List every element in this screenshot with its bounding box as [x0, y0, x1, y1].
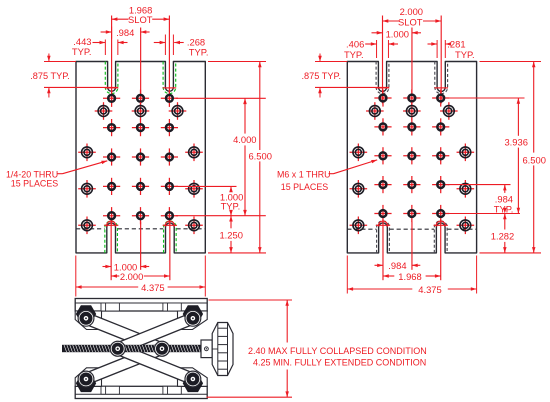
plate R tapped hole r2c1: [374, 118, 391, 135]
plate L counterbored hole side x2y1: [185, 144, 203, 162]
plate L tapped hole r3c1: [103, 148, 120, 165]
svg-text:6.500: 6.500: [248, 150, 271, 161]
leader 1/4-20: [58, 161, 108, 174]
plate L top slot 1 end tick: [105, 87, 119, 89]
svg-text:2.40 MAX FULLY COLLAPSED CONDI: 2.40 MAX FULLY COLLAPSED CONDITION: [248, 346, 427, 356]
plate L outline: [76, 62, 205, 253]
svg-text:SLOT: SLOT: [128, 14, 153, 25]
plate L counterbored hole side x1y3: [78, 217, 96, 235]
plate L counterbored hole top 1: [95, 102, 113, 120]
plate L tapped hole r5c2: [132, 207, 149, 224]
jack bolt top-right: [183, 305, 203, 326]
dim top 1.000 line: [372, 27, 422, 39]
dim 6.500 left lines: [208, 62, 266, 253]
plate R tapped hole r5c3: [432, 205, 449, 222]
plate L counterbored hole side x1y2: [78, 180, 96, 198]
svg-text:.984: .984: [116, 27, 134, 38]
jack top plate flange line: [75, 302, 207, 304]
jack corner block top-left: [75, 311, 101, 330]
svg-text:15 PLACES: 15 PLACES: [11, 179, 58, 189]
dim 1.250 line: [229, 216, 233, 253]
svg-text:15 PLACES: 15 PLACES: [281, 182, 328, 192]
jack bolt bottom-left: [76, 371, 96, 392]
dim .281 arrows: [428, 40, 452, 58]
plate L tapped hole r2c1: [103, 119, 120, 136]
svg-text:2.000: 2.000: [120, 271, 143, 282]
plate L bottom slot 2 counterbore dashed outline: [164, 221, 177, 253]
dim bottom 1.968 line: [383, 274, 441, 278]
plate L tapped hole r4c3: [161, 178, 178, 195]
plate R counterbored hole top 2: [403, 102, 421, 120]
plate R tapped hole r2c3: [432, 118, 449, 135]
dim .875 TYP left lines: [44, 54, 118, 98]
plate R counterbored hole side x2y2: [457, 180, 475, 198]
jack corner block bottom-right: [178, 368, 208, 387]
dim 2.000 SLOT line: [383, 19, 442, 23]
dim .406 arrows: [365, 40, 398, 58]
plate L tapped hole r1c2: [132, 90, 149, 107]
svg-text:.875 TYP.: .875 TYP.: [302, 71, 342, 81]
plate R tapped hole r3c1: [374, 147, 391, 164]
plate R counterbored hole side x2y1: [457, 144, 475, 162]
svg-text:.984: .984: [388, 260, 406, 271]
dim .984 TYP lines: [448, 185, 511, 215]
plate L tapped hole r3c2: [132, 148, 149, 165]
dim 1.282 line: [448, 214, 520, 253]
svg-text:4.375: 4.375: [141, 282, 164, 293]
jack bolt middle-right: [155, 341, 170, 356]
dim 6.500 right lines: [480, 62, 542, 253]
plate R counterbored hole top 1: [366, 102, 384, 120]
plate R bottom slot 2 thread arc marker: [434, 221, 448, 227]
dim bottom 4.375 right line: [347, 287, 476, 291]
plate L hidden line bottom counterbore depth: [76, 228, 205, 230]
dim bottom 4.375 left line: [76, 285, 206, 289]
plate L counterbored hole side x2y2: [185, 180, 203, 198]
jack bottom plate tab 1: [101, 386, 119, 394]
plate L top slot 1 counterbore dashed outline: [105, 62, 118, 94]
plate L tapped hole r5c3: [161, 207, 178, 224]
plate R tapped hole r1c2: [403, 89, 420, 106]
plate L tapped hole r1c3: [161, 90, 178, 107]
svg-text:.875 TYP.: .875 TYP.: [30, 71, 70, 81]
svg-text:M6 x 1 THRU: M6 x 1 THRU: [277, 169, 331, 179]
svg-text:4.000: 4.000: [233, 134, 256, 145]
svg-text:4.375: 4.375: [418, 284, 441, 295]
plate R top slot 2 counterbore dashed outline: [435, 62, 448, 94]
svg-text:TYP.: TYP.: [494, 203, 514, 214]
plate L bottom slot 1 counterbore dashed outline: [105, 221, 118, 253]
plate L tapped hole r2c3: [161, 119, 178, 136]
plate L tapped hole r1c1: [103, 90, 120, 107]
ext line plate R right edge: [476, 256, 478, 294]
jack screw shaft block: [201, 340, 212, 358]
dim bottom 1.000 arrows: [103, 265, 150, 268]
jack bolt top-left: [76, 305, 96, 326]
plate L counterbored hole side x1y1: [78, 144, 96, 162]
dim 1.968 SLOT line: [112, 17, 170, 21]
plate R top slot 1 centerline: [382, 16, 384, 104]
ext line plate L left edge: [75, 256, 77, 297]
plate L counterbored hole top 3: [169, 102, 187, 120]
dim .984 line: [101, 27, 150, 39]
plate L tapped hole r4c2: [132, 178, 149, 195]
plate L tapped hole r4c1: [103, 178, 120, 195]
plate L top slot 2 counterbore dashed outline: [163, 62, 176, 94]
jack bottom plate flange line: [75, 393, 207, 395]
plate L bottom slot 1 thread arc marker: [104, 221, 118, 227]
dim bottom 2.000 line: [111, 274, 170, 278]
jack top plate: [75, 299, 207, 312]
jack top plate tab 2: [163, 303, 181, 311]
dim jack height lines: [207, 300, 293, 397]
plate R bottom slot 2 counterbore dashed outline: [434, 221, 447, 253]
svg-text:TYP.: TYP.: [221, 201, 241, 212]
plate R counterbored hole side x1y3: [350, 217, 368, 235]
svg-text:6.500: 6.500: [522, 154, 545, 165]
ext line plate R left edge: [346, 256, 348, 294]
plate R bottom slot 1 thread arc marker: [376, 221, 390, 227]
svg-text:TYP.: TYP.: [72, 46, 92, 57]
svg-text:SLOT: SLOT: [398, 16, 423, 27]
dim .875 TYP right lines: [315, 54, 389, 98]
plate L top slot 2 end tick: [163, 87, 177, 89]
svg-text:1.968: 1.968: [398, 271, 421, 282]
jack arm TR-ML: [116, 313, 195, 354]
plate R tapped hole r3c2: [403, 147, 420, 164]
plate L bottom slot 2 centerline: [169, 220, 171, 281]
leader M6: [329, 160, 378, 174]
jack knob: [212, 323, 233, 376]
svg-text:1.250: 1.250: [219, 230, 242, 241]
jack lead screw: [62, 345, 201, 352]
jack arm BL-MR: [84, 343, 164, 384]
plate R top slot 1 counterbore dashed outline: [376, 62, 389, 94]
plate R bottom slot 1 counterbore dashed outline: [377, 221, 390, 253]
plate R counterbored hole side x1y1: [350, 144, 368, 162]
svg-text:TYP.: TYP.: [189, 46, 209, 57]
plate R outline: [347, 62, 476, 253]
plate L tapped hole r5c1: [103, 207, 120, 224]
plate R tapped hole r5c2: [403, 205, 420, 222]
plate R counterbored hole top 3: [440, 102, 458, 120]
plate L bottom slot 2 thread arc marker: [163, 221, 177, 227]
dim 1.000 TYP lines: [176, 186, 237, 215]
plate R tapped hole r2c2: [403, 118, 420, 135]
dim bottom .984 arrows: [375, 264, 421, 268]
plate L center column centerline bottom: [140, 222, 142, 270]
dim .268 arrows: [154, 35, 184, 56]
jack top plate tab 1: [101, 303, 119, 311]
plate R tapped hole r1c3: [432, 89, 449, 106]
svg-text:1.000: 1.000: [386, 28, 409, 39]
svg-text:4.25 MIN. FULLY EXTENDED CONDI: 4.25 MIN. FULLY EXTENDED CONDITION: [253, 358, 426, 368]
plate L bottom slot 1 centerline: [110, 220, 112, 281]
dim 4.000 lines: [176, 98, 266, 215]
jack arm BR-ML: [116, 343, 195, 384]
plate L tapped hole r3c3: [161, 148, 178, 165]
plate R hidden line bottom counterbore depth: [347, 228, 476, 230]
plate R tapped hole r5c1: [374, 205, 391, 222]
plate R top slot 2 end tick: [434, 87, 448, 89]
jack bolt bottom-right: [183, 371, 203, 392]
dim .443 arrows: [93, 40, 128, 56]
plate R tapped hole r4c2: [403, 176, 420, 193]
jack arm TL-MR: [84, 313, 164, 354]
plate R center column centerline bottom: [411, 222, 413, 270]
jack bottom plate tab 2: [163, 386, 181, 394]
plate R tapped hole r4c1: [374, 176, 391, 193]
plate R tapped hole r3c3: [432, 147, 449, 164]
dim 3.936 lines: [448, 98, 525, 214]
plate R top slot 2 centerline: [440, 16, 442, 104]
plate R bottom slot 2 centerline: [440, 220, 442, 281]
svg-text:TYP.: TYP.: [455, 49, 475, 60]
svg-text:3.936: 3.936: [504, 136, 527, 147]
jack corner block top-right: [178, 311, 208, 330]
svg-text:2.000: 2.000: [400, 6, 423, 17]
plate L top slot 2 centerline: [168, 16, 170, 104]
svg-text:1.282: 1.282: [491, 231, 514, 242]
plate R tapped hole r4c3: [432, 176, 449, 193]
jack corner block bottom-left: [75, 368, 101, 387]
plate L center column centerline top: [140, 28, 142, 104]
jack bottom plate: [75, 386, 207, 398]
jack bolt middle-left: [110, 341, 125, 356]
plate R tapped hole r1c1: [374, 89, 391, 106]
svg-text:TYP.: TYP.: [344, 49, 364, 60]
plate R center column centerline top: [411, 28, 413, 104]
plate R top slot 1 end tick: [376, 87, 390, 89]
plate L tapped hole r2c2: [132, 119, 149, 136]
plate R counterbored hole side x1y2: [350, 180, 368, 198]
plate R counterbored hole side x2y3: [457, 217, 475, 235]
plate L top slot 1 centerline: [111, 16, 113, 104]
plate L counterbored hole side x2y3: [185, 217, 203, 235]
ext line plate L right edge: [204, 256, 206, 297]
plate R bottom slot 1 centerline: [382, 220, 384, 281]
plate L counterbored hole top 2: [132, 102, 150, 120]
